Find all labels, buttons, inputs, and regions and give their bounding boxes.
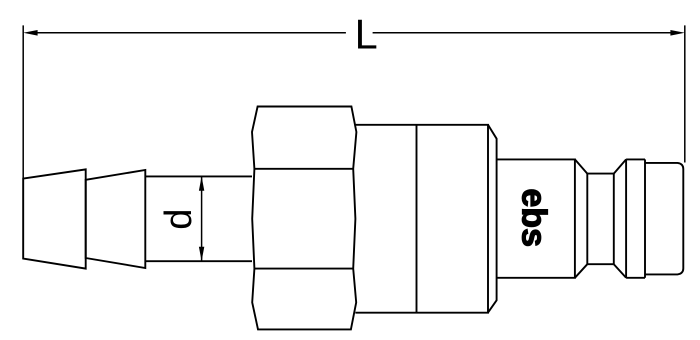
dimension L extension line left	[22, 25, 24, 259]
groove right edge	[613, 174, 615, 265]
hose barb 1	[23, 169, 85, 268]
hose tube top edge	[145, 175, 252, 177]
hex nut facet line upper	[254, 168, 353, 170]
svg-text:ebs: ebs	[515, 188, 553, 247]
hose tube bottom edge	[145, 260, 252, 262]
collar ring right edge	[644, 159, 646, 277]
dimension d line	[201, 176, 203, 261]
groove top edge	[587, 173, 614, 175]
hex nut facet line lower	[254, 268, 353, 270]
dimension L line left segment	[37, 32, 346, 34]
groove chamfer left	[575, 159, 587, 277]
svg-text:d: d	[158, 209, 200, 230]
dimension L extension line right	[684, 25, 686, 162]
groove bottom edge	[587, 263, 614, 265]
dimension L arrowhead right	[670, 30, 684, 36]
coupling body divider line	[416, 125, 418, 313]
dimension L arrowhead left	[23, 30, 37, 36]
collar ring left edge	[625, 159, 627, 277]
groove chamfer right	[614, 159, 626, 277]
dimension L line right segment	[373, 32, 672, 34]
coupling body chamfer top	[488, 125, 497, 313]
groove left edge	[586, 174, 588, 265]
collar ring bottom edge	[626, 277, 645, 279]
hex nut outline	[252, 107, 356, 330]
plug shank (ebs cylinder)	[497, 159, 575, 277]
dimension d arrowhead top	[199, 176, 204, 190]
dimension d arrowhead bottom	[199, 247, 204, 261]
collar ring top edge	[626, 158, 645, 160]
hose barb 2	[86, 170, 146, 268]
end cap outline	[645, 163, 683, 275]
coupling body outline	[355, 125, 488, 313]
svg-text:L: L	[355, 10, 378, 57]
